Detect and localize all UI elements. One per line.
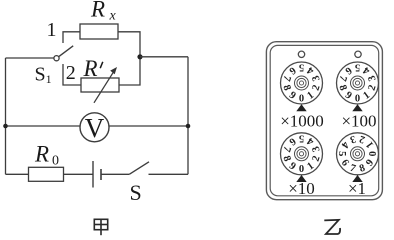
node voltmeter left <box>3 124 8 129</box>
switch S blade <box>129 162 149 175</box>
junction node (parallel combiner) <box>137 54 142 59</box>
svg-text:×10: ×10 <box>288 179 315 198</box>
svg-text:×1: ×1 <box>348 179 366 198</box>
dial x1 <box>336 133 379 175</box>
svg-text:V: V <box>85 113 105 143</box>
rheostat R-prime box <box>81 78 119 92</box>
svg-text:5: 5 <box>299 62 304 73</box>
node voltmeter right <box>186 124 191 129</box>
dial pointer x1000 <box>296 104 306 111</box>
dial pointer x1 <box>352 175 362 182</box>
resistance box inner border <box>270 45 379 195</box>
svg-text:0: 0 <box>355 93 360 104</box>
dial x1000 <box>280 62 322 105</box>
wire left vertical <box>5 58 7 174</box>
dial x10 <box>280 133 322 176</box>
svg-text:R: R <box>34 142 49 167</box>
wire bottom left segment <box>6 173 29 175</box>
rheostat arrow <box>94 71 114 103</box>
svg-text:0: 0 <box>52 154 59 169</box>
caption jia (circuit A) <box>94 219 107 235</box>
svg-text:R: R <box>83 56 98 81</box>
switch S1 blade <box>59 46 73 57</box>
svg-text:0: 0 <box>299 93 304 104</box>
resistor R0 <box>29 167 64 181</box>
wire contact 1 to Rx <box>63 32 80 43</box>
terminal right <box>355 51 361 57</box>
wire R0 to battery <box>64 173 94 175</box>
svg-text:0: 0 <box>299 164 304 175</box>
wire S1 feed <box>6 57 54 59</box>
terminal left <box>298 51 304 57</box>
svg-text:x: x <box>109 9 117 24</box>
svg-text:R: R <box>90 0 105 22</box>
wire rheostat to junction <box>119 57 140 85</box>
dial pointer x10 <box>296 175 306 182</box>
battery cell short plate <box>100 169 102 180</box>
svg-text:1: 1 <box>47 19 57 41</box>
dial pointer x100 <box>352 104 362 111</box>
svg-text:S1: S1 <box>35 63 52 86</box>
wire switch S to right <box>149 173 189 175</box>
switch S1 pivot <box>54 56 59 61</box>
wire contact 2 to rheostat <box>63 64 81 85</box>
caption yi (box B) <box>324 220 340 234</box>
resistance box outer case <box>266 42 382 200</box>
wire battery to switch S <box>101 173 129 175</box>
svg-text:×1000: ×1000 <box>280 112 324 131</box>
battery cell long plate <box>92 161 94 188</box>
wire Rx to junction <box>118 32 140 57</box>
svg-text:5: 5 <box>336 151 347 156</box>
wire right vertical <box>187 57 189 175</box>
svg-text:5: 5 <box>299 133 304 144</box>
svg-text:2: 2 <box>66 62 76 84</box>
wire top to right edge <box>140 56 188 58</box>
svg-text:×100: ×100 <box>341 112 376 131</box>
wire voltmeter branch <box>6 125 189 127</box>
svg-text:5: 5 <box>355 62 360 73</box>
resistor Rx <box>80 24 118 39</box>
svg-text:0: 0 <box>368 151 379 156</box>
dial x100 <box>336 62 378 105</box>
svg-text:S: S <box>130 180 142 205</box>
voltmeter V <box>80 113 109 142</box>
